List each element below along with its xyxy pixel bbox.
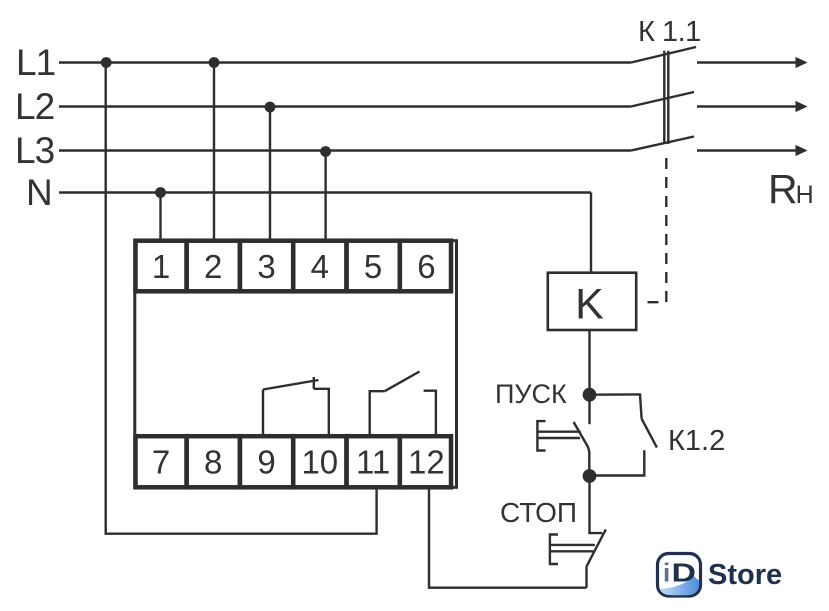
svg-text:7: 7 — [152, 444, 170, 481]
svg-text:K: K — [575, 281, 604, 329]
svg-text:L3: L3 — [15, 130, 54, 171]
svg-text:11: 11 — [356, 444, 390, 481]
svg-text:ПУСК: ПУСК — [495, 379, 567, 409]
svg-text:9: 9 — [257, 444, 275, 481]
svg-text:1: 1 — [152, 248, 170, 285]
svg-text:Store: Store — [708, 559, 782, 591]
svg-text:L2: L2 — [15, 86, 54, 127]
svg-text:5: 5 — [364, 248, 382, 285]
svg-text:D: D — [672, 558, 697, 588]
svg-text:К1.2: К1.2 — [668, 425, 725, 457]
svg-text:3: 3 — [257, 248, 275, 285]
svg-text:К 1.1: К 1.1 — [638, 16, 701, 48]
svg-text:2: 2 — [204, 248, 222, 285]
svg-text:10: 10 — [301, 444, 338, 481]
svg-text:8: 8 — [204, 444, 222, 481]
svg-text:i: i — [663, 558, 670, 588]
svg-text:L1: L1 — [16, 42, 55, 83]
svg-text:СТОП: СТОП — [500, 497, 577, 528]
svg-text:4: 4 — [311, 248, 329, 285]
svg-text:12: 12 — [408, 444, 445, 481]
svg-text:N: N — [26, 172, 52, 213]
svg-text:6: 6 — [417, 248, 435, 285]
